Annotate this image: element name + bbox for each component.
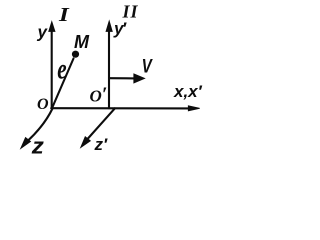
y-axis (frame I) — [49, 22, 55, 109]
z-axis (frame I) — [21, 109, 53, 149]
x,x' axis — [51, 106, 200, 111]
y'-axis (frame II) — [106, 21, 112, 108]
velocity vector V — [110, 74, 145, 83]
svg-text:I: I — [58, 3, 70, 25]
svg-text:e: e — [57, 52, 66, 86]
svg-text:y: y — [37, 23, 49, 42]
svg-text:O: O — [37, 96, 49, 113]
z'-axis (frame II) — [81, 108, 115, 147]
svg-text:x,x′: x,x′ — [173, 82, 203, 101]
radius vector e from O to point M — [52, 59, 73, 108]
point M dot — [72, 51, 79, 58]
svg-text:z: z — [31, 133, 45, 158]
svg-text:y′: y′ — [113, 19, 127, 38]
svg-text:V: V — [142, 55, 153, 77]
svg-text:O′: O′ — [90, 84, 108, 106]
svg-text:M: M — [74, 32, 90, 52]
svg-text:z′: z′ — [94, 135, 109, 154]
